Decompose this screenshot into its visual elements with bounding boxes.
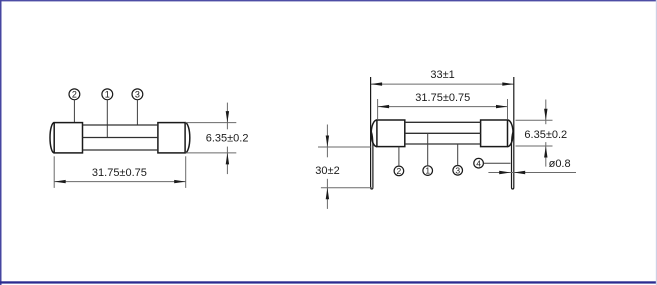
svg-text:1: 1: [105, 90, 110, 100]
leader from callout 1 to fuse element: [106, 100, 108, 138]
svg-text:31.75±0.75: 31.75±0.75: [92, 167, 147, 179]
glass tube top edge (left view): [83, 124, 158, 126]
leader from callout 2 to left end cap: [73, 100, 75, 123]
leader from callout 1 to fuse element: [427, 133, 429, 166]
callout 4 (lead): [474, 158, 484, 168]
svg-text:30±2: 30±2: [315, 165, 339, 177]
dimension 6.35±0.2 (right view diameter): [516, 100, 568, 167]
dimension 33±1 (overall length over leads): [371, 69, 514, 86]
svg-text:3: 3: [135, 90, 140, 100]
svg-text:ø0.8: ø0.8: [549, 158, 571, 170]
border right: [656, 0, 657, 285]
callout 2 (left view): [69, 89, 80, 100]
leader from callout 4 to lead wire: [484, 162, 511, 164]
svg-text:31.75±0.75: 31.75±0.75: [415, 92, 470, 104]
glass tube top edge (right view): [405, 121, 481, 123]
svg-text:6.35±0.2: 6.35±0.2: [206, 132, 249, 144]
callout 3 (left view): [132, 89, 143, 100]
svg-text:2: 2: [72, 90, 77, 100]
callout 1 (left view): [102, 89, 113, 100]
svg-text:4: 4: [476, 158, 481, 168]
dimension 31.75±0.75 (left view length): [54, 156, 186, 188]
leader from callout 3 to glass tube: [136, 100, 138, 126]
right end cap (left view): [158, 123, 190, 153]
dimension 31.75±0.75 (right view tube length): [378, 92, 508, 119]
left lead wire: [371, 77, 373, 189]
left end cap (right view): [371, 120, 405, 147]
callout 3 (right view): [453, 165, 463, 175]
leader from callout 2 to end cap: [398, 147, 400, 167]
border left: [0, 0, 2, 285]
dimension ø0.8 (lead diameter): [488, 158, 576, 174]
svg-text:33±1: 33±1: [430, 69, 454, 81]
glass tube bottom edge (right view): [405, 143, 481, 145]
callout 1 (right view): [423, 166, 433, 176]
right lead wire: [512, 77, 514, 189]
fuse element wire (left view): [83, 137, 158, 139]
fuse element wire (right view): [405, 132, 481, 134]
svg-text:1: 1: [425, 166, 430, 176]
border bottom: [0, 281, 657, 283]
left end cap (left view): [50, 123, 82, 153]
border top: [0, 0, 657, 1]
svg-text:2: 2: [397, 166, 402, 176]
leader from callout 3 to glass tube: [457, 144, 459, 166]
dimension 6.35±0.2 (left view diameter): [186, 103, 249, 175]
glass tube bottom edge (left view): [83, 149, 158, 151]
svg-text:6.35±0.2: 6.35±0.2: [524, 129, 567, 141]
callout 2 (right view): [394, 166, 404, 176]
svg-text:3: 3: [455, 165, 460, 175]
right end cap (right view): [481, 120, 513, 147]
dimension 30±2 (lead length): [315, 125, 373, 209]
